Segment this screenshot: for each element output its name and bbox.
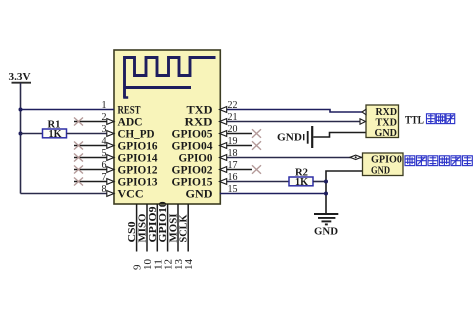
no-ERC X marker pin 4 [74,142,83,150]
pin arrow pin 19 [220,143,227,149]
svg-text:GPIO13: GPIO13 [118,177,158,189]
svg-text:RXD: RXD [185,117,213,129]
wire burn-port GND down to ground [326,171,363,214]
svg-text:GND: GND [375,128,398,139]
wire U1 bottom pin 11 stub [156,204,158,252]
svg-text:TXD: TXD [376,118,398,129]
wire NC stub pin 20 [220,133,253,135]
pin arrow pin 18 [220,155,227,161]
svg-text:GPIO15: GPIO15 [172,177,213,189]
pin arrow (input) pin 8 [107,191,114,197]
power port 3.3V [9,71,32,83]
svg-text:ADC: ADC [118,117,143,129]
wire GND1 to serial port GND [313,133,366,138]
wire rail bottom to pin8 VCC [21,193,115,195]
svg-text:GPIO02: GPIO02 [172,165,213,177]
no-ERC X marker pin 5 [74,154,83,162]
resistor R1 [43,120,67,141]
wire U1 bottom pin 13 stub [177,204,179,252]
svg-text:GND: GND [186,189,213,201]
pin arrow (input) pin 6 [107,167,114,173]
wire pin22 TXD to serial RXD [220,110,363,113]
wire U1 bottom pin 9 stub [136,204,138,252]
junction dot R2/ground net [324,180,328,184]
wire 3.3V rail vertical [20,83,22,194]
svg-text:GND: GND [314,226,338,238]
no-ERC X marker pin 17 [252,165,261,173]
pin arrow pin 22 [220,107,227,113]
wire NC stub pin 7 [74,181,114,183]
wire R2 to junction [313,181,326,183]
svg-text:SCLK: SCLK [178,214,190,242]
no-ERC X marker pin 19 [252,141,261,149]
no-ERC X marker pin 20 [252,129,261,137]
svg-text:GPIO14: GPIO14 [118,153,158,165]
svg-text:RXD: RXD [376,107,398,118]
junction dot rail/R1 [19,132,23,136]
wire rail to R1 [21,133,43,135]
wire NC stub pin 5 [74,157,114,159]
wire U1 bottom pin 12 stub [167,204,169,252]
pin arrow (input) pin 4 [107,143,114,149]
svg-text:3.3V: 3.3V [9,71,31,83]
op-amp-style IC U1 (ESP8266 module) body [114,50,220,204]
pin arrow pin 16 [220,179,227,185]
junction dot rail/pin1 [19,108,23,112]
connector port: TTL serial (RXD/TXD/GND) [366,105,399,139]
svg-text:14: 14 [184,259,195,270]
wire R1 to pin3 CH_PD [67,133,115,135]
pin arrow (input) pin 7 [107,179,114,185]
pin arrow pin 17 [220,167,227,173]
pin arrow (input) pin 2 [107,119,114,125]
svg-text:GPIO16: GPIO16 [118,141,158,153]
svg-text:GPIO0: GPIO0 [371,155,402,166]
svg-text:GPIO0: GPIO0 [179,153,213,165]
arrow into serial TXD [360,119,366,124]
pin arrow pin 21 [220,119,227,125]
wire rail to pin1 REST [21,109,115,111]
pin arrow pin 20 [220,131,227,137]
wire NC stub pin 19 [220,145,253,147]
no-ERC X marker pin 7 [74,178,83,186]
antenna meander symbol inside U1 [125,58,216,98]
wire NC stub pin 6 [74,169,114,171]
pin arrow (input) pin 5 [107,155,114,161]
arrow into wire at serial RXD [362,109,366,114]
junction dot pin15/ground net [324,192,328,196]
svg-text:9: 9 [133,265,144,271]
wire pin18 GPIO0 to port [220,157,363,159]
wire U1 bottom pin 14 stub [187,204,189,252]
svg-text:REST: REST [118,105,141,117]
svg-text:GPIO05: GPIO05 [172,129,213,141]
svg-text:VCC: VCC [118,189,144,201]
svg-text:TTL: TTL [405,113,424,127]
connector port: burn mode select (GPIO0/GND) [363,153,404,177]
no-ERC X marker pin 2 [74,118,83,126]
wire NC stub pin 4 [74,145,114,147]
svg-text:GND: GND [277,133,302,144]
svg-text:GND: GND [371,166,390,177]
resistor R2 [289,168,313,189]
net label text: burn mode selection (blue) [405,156,472,166]
bidirectional diamond arrow on GPIO0 wire [350,155,361,159]
no-ERC X marker pin 6 [74,166,83,174]
ground symbol GND [314,214,338,238]
net label text: TTL serial port (blue) [405,113,455,127]
wire U1 bottom pin 10 stub [146,204,148,252]
wire pin16 GPIO15 to R2 [220,181,290,183]
wire NC stub pin 2 [74,121,114,123]
wire pin15 GND to ground [220,193,327,195]
svg-text:1K: 1K [295,177,308,188]
power port GND1 (bar style) [277,126,312,148]
svg-text:GPIO04: GPIO04 [172,141,213,153]
svg-text:CH_PD: CH_PD [118,129,155,141]
svg-text:TXD: TXD [187,105,213,117]
pin arrow (input) pin 3 [107,131,114,137]
svg-text:1K: 1K [49,129,62,140]
wire NC stub pin 17 [220,169,253,171]
svg-text:GPIO12: GPIO12 [118,165,158,177]
svg-text:12: 12 [164,259,175,270]
wire pin21 RXD to serial TXD [220,121,361,123]
